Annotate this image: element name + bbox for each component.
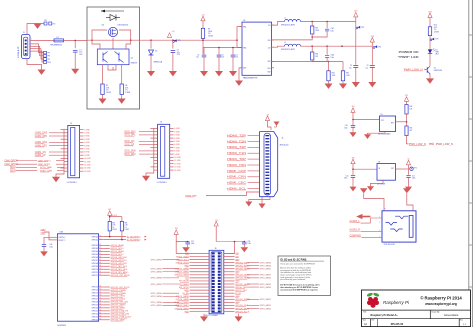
wire S2 left pin row 8 xyxy=(64,151,68,153)
svg-text:GPIO17: GPIO17 xyxy=(92,299,99,301)
svg-text:C2: C2 xyxy=(197,54,199,56)
wire LX1 to L1 xyxy=(272,22,285,26)
svg-text:GPIO08: GPIO08 xyxy=(92,263,99,265)
capacitor C5 10n xyxy=(217,54,222,56)
svg-text:50: 50 xyxy=(99,268,101,270)
inductor L1 DFE252012C-4R7M xyxy=(285,20,289,22)
resistor R6 47K xyxy=(120,84,123,95)
ground symbol below C10 xyxy=(350,187,357,192)
wire S2 right pin row 4 with pin number xyxy=(80,138,84,140)
svg-text:1 GND: 1 GND xyxy=(174,128,180,130)
svg-text:41: 41 xyxy=(99,238,101,240)
svg-text:7 GND: 7 GND xyxy=(174,147,180,149)
svg-text:TP2: TP2 xyxy=(52,24,55,26)
frame zone tick y=161 xyxy=(469,160,473,162)
ideal-diode annotation diode symbol xyxy=(110,15,116,21)
svg-text:RPI-APLUS: RPI-APLUS xyxy=(391,323,404,326)
svg-text:C6: C6 xyxy=(367,65,369,67)
wire S2 left pin row 3 xyxy=(64,135,68,137)
U1 pin GPIO row GPIO1_SCL0 xyxy=(99,247,104,249)
svg-text:8 GND: 8 GND xyxy=(174,151,180,153)
wire J8 right pin row 13 net GPIO7_CE1 xyxy=(224,289,235,291)
svg-text:Title: Title xyxy=(363,311,366,314)
svg-text:GPIO8_SPI_CE0: GPIO8_SPI_CE0 xyxy=(111,269,128,271)
LED D1 PWR red xyxy=(428,49,432,53)
op-amp U3 PAM2306AYPKE body xyxy=(242,22,272,75)
wire J8 left pin row 19 net GPIO26_GEN7 xyxy=(190,307,210,309)
svg-text:© Raspberry Pi 2014: © Raspberry Pi 2014 xyxy=(420,295,462,300)
wire J8 right pin row 11 net GPIO25_GEN6 xyxy=(224,283,235,285)
wire S1 right pin row 4 with pin number xyxy=(170,137,174,139)
svg-text:GPIO1_SCL0: GPIO1_SCL0 xyxy=(111,248,125,250)
svg-text:49: 49 xyxy=(99,265,101,267)
node junction zener D5 xyxy=(150,39,152,41)
wire S2 left pin row 10 xyxy=(61,157,68,159)
U1 pin GPIO row GPIO8_SPI_CE0 xyxy=(99,268,104,270)
svg-text:PWR_LOW_N: PWR_LOW_N xyxy=(436,143,453,146)
power arrow 3V3 for PWR LED xyxy=(428,13,432,18)
ground symbol below C40 xyxy=(40,251,48,256)
svg-text:DFE252012C-4R7M: DFE252012C-4R7M xyxy=(281,25,295,27)
svg-text:ID_SC: ID_SC xyxy=(235,293,242,295)
svg-text:GPIO_GEN5: GPIO_GEN5 xyxy=(260,269,271,271)
wire FB2 node xyxy=(272,60,313,62)
ideal-diode annotation arrow xyxy=(101,10,124,12)
wire S1 right pin row 13 with pin number xyxy=(170,166,174,168)
wire R6 to ground xyxy=(121,95,123,99)
frame zone tick y=245 xyxy=(469,244,473,246)
svg-text:GPIO26_GEN7: GPIO26_GEN7 xyxy=(174,308,189,310)
svg-text:GPIO_GEN1: GPIO_GEN1 xyxy=(260,305,271,307)
svg-text:TP10: TP10 xyxy=(47,62,51,64)
title block outer border xyxy=(362,290,471,327)
power arrow 3V3 for U5 xyxy=(351,108,355,113)
transistor Q1 element B symbol xyxy=(118,53,120,62)
U1 pin GPIO row GPIO13_PWM1 xyxy=(99,292,104,294)
resistor R31 4K7 xyxy=(405,126,408,136)
svg-text:VIN2: VIN2 xyxy=(243,48,247,50)
svg-text:GPIO_GEN5: GPIO_GEN5 xyxy=(151,269,162,271)
wire R24 to ID_SC row xyxy=(121,231,123,240)
svg-text:Q2: Q2 xyxy=(434,68,436,70)
svg-text:XOSCP_2: XOSCP_2 xyxy=(58,240,65,242)
title block row divider 1 xyxy=(362,309,471,311)
wire C11 to ground xyxy=(408,178,410,187)
svg-text:1.8K: 1.8K xyxy=(112,225,115,227)
svg-text:GPIO12_PWM0: GPIO12_PWM0 xyxy=(111,290,127,292)
wire and net label GPIO19_PCM_FS xyxy=(104,310,110,312)
U1 pin GPIO row GPIO17_GEN0 xyxy=(99,304,104,306)
capacitor C4 10n xyxy=(231,54,236,56)
svg-text:FB2: FB2 xyxy=(268,61,271,63)
svg-text:R64: R64 xyxy=(332,73,335,75)
wire and net label GPIO13_PWM1 xyxy=(104,292,110,294)
svg-text:C147: C147 xyxy=(331,28,335,30)
svg-text:SPI_MISO: SPI_MISO xyxy=(179,284,189,286)
svg-text:GPIO10_SPI_MOSI: GPIO10_SPI_MOSI xyxy=(111,275,130,277)
wire C7 to ground xyxy=(172,52,174,71)
svg-text:GPIO_GEN6: GPIO_GEN6 xyxy=(151,272,162,274)
svg-text:GPIO_GEN2: GPIO_GEN2 xyxy=(260,284,271,286)
svg-text:C5: C5 xyxy=(222,54,224,56)
wire and net label GPIO21_PCM_DOUT xyxy=(104,316,110,318)
svg-text:1-1734248-5: 1-1734248-5 xyxy=(157,182,167,184)
svg-text:54: 54 xyxy=(99,289,101,291)
wire Q1 base cross-link xyxy=(108,65,116,70)
svg-text:ZX62R-B-5P: ZX62R-B-5P xyxy=(18,46,20,58)
svg-text:12 GND: 12 GND xyxy=(174,163,181,165)
wire J7 top pin stub xyxy=(383,206,385,211)
U1 pin GPIO row GPIO9_SPI_MISO xyxy=(99,271,104,273)
wire J8 left pin row 13 net GND xyxy=(190,289,210,291)
svg-text:SCL0: SCL0 xyxy=(10,167,16,169)
svg-text:3V3: 3V3 xyxy=(352,158,355,160)
test pad TP7 (USB D-) xyxy=(44,51,47,54)
svg-text:3V3: 3V3 xyxy=(405,95,408,97)
wire HDMI_T2P to J6 xyxy=(248,135,260,137)
svg-text:RN4907: RN4907 xyxy=(131,63,138,65)
svg-text:1/16W: 1/16W xyxy=(125,92,130,94)
wire LX2 to L2 xyxy=(272,46,285,47)
svg-text:PWR_LOW_N: PWR_LOW_N xyxy=(409,144,426,146)
ground symbol below C25 xyxy=(182,247,190,252)
svg-text:Rev: Rev xyxy=(460,320,463,322)
wire and net label GPIO17_GEN0 xyxy=(104,304,110,306)
wire S1 right pin row 1 with pin number xyxy=(170,128,174,130)
wire R23 to ID_SD row xyxy=(109,231,111,237)
power arrow +5V for J8 xyxy=(214,221,218,226)
wire C2 to ground xyxy=(203,57,205,71)
wire S1 right pin row 12 with pin number xyxy=(170,163,174,165)
wire J1 VBUS pin to fuse F1 xyxy=(30,39,54,41)
svg-text:GPIO9_SPI_MISO: GPIO9_SPI_MISO xyxy=(111,272,129,274)
wire VIN2 pin xyxy=(241,47,243,49)
wire C6 to ground xyxy=(371,67,373,82)
svg-text:pins efficiently, prior hardwa: pins efficiently, prior hardware. xyxy=(280,278,306,281)
wire down to capacitor C1 xyxy=(74,40,76,48)
wire S2 left pin row 13 xyxy=(61,167,68,169)
svg-text:DSI1_DN0: DSI1_DN0 xyxy=(125,151,137,153)
node junction C9 tap xyxy=(352,119,354,121)
ground symbol below J6 pin xyxy=(245,202,252,207)
net flag arrow audio out xyxy=(356,214,362,219)
connector S2 camera FFC body xyxy=(68,125,80,177)
wire J8 left pin row 5 net GND xyxy=(190,265,210,267)
wire and net label GPIO7_SPI_CE1 xyxy=(104,265,110,267)
svg-text:DMG2305UX: DMG2305UX xyxy=(118,25,129,27)
power arrow 5V at U6 output xyxy=(406,160,410,165)
svg-text:GPIO14_TXD0: GPIO14_TXD0 xyxy=(111,296,126,298)
ground symbol below Q2 xyxy=(426,78,434,83)
capacitor C148 feed-forward ch2 xyxy=(326,46,328,55)
svg-text:GPIO_GEN6: GPIO_GEN6 xyxy=(151,296,162,298)
wire +5V rail through protection box xyxy=(87,39,140,41)
svg-text:GPIO03: GPIO03 xyxy=(92,248,99,250)
wire S1 left pin row 3 xyxy=(154,134,158,136)
svg-text:GPIO_GEN0: GPIO_GEN0 xyxy=(260,278,271,280)
wire to PWR_LOW_N net label xyxy=(407,136,409,144)
svg-text:1/16W: 1/16W xyxy=(125,229,130,231)
U1 pin GPIO row GPIO4_GPCLK0 xyxy=(99,256,104,258)
ground symbol below U6 xyxy=(367,186,374,191)
wire Q2 emitter to ground xyxy=(429,74,431,79)
svg-text:GPIO06: GPIO06 xyxy=(92,257,99,259)
wire to zener D5 xyxy=(150,40,152,48)
wire C1 to ground xyxy=(74,52,76,69)
svg-text:GPIO22_GEN3: GPIO22_GEN3 xyxy=(174,275,189,277)
svg-text:3V3: 3V3 xyxy=(108,209,111,211)
svg-text:100n: 100n xyxy=(191,243,195,245)
svg-text:GPIO21: GPIO21 xyxy=(92,311,99,313)
svg-text:10u: 10u xyxy=(366,68,369,70)
ground symbol below C2 xyxy=(200,71,208,76)
node junction C1 tap xyxy=(74,40,76,42)
svg-text:GPIO11_SPI_SCLK: GPIO11_SPI_SCLK xyxy=(111,287,131,289)
wire J8 right pin row 9 net GPIO24_GEN5 xyxy=(224,277,235,279)
svg-text:C25: C25 xyxy=(191,241,194,243)
wire S2 right pin row 8 with pin number xyxy=(80,151,84,153)
svg-text:10n: 10n xyxy=(236,57,239,59)
wire S2 right pin row 6 with pin number xyxy=(80,145,84,147)
svg-text:GPIO4_GPCLK0: GPIO4_GPCLK0 xyxy=(111,257,128,259)
wire S2 right pin row 12 with pin number xyxy=(80,164,84,166)
svg-text:GPIO_GEN7: GPIO_GEN7 xyxy=(260,275,271,277)
svg-text:PULLUP: PULLUP xyxy=(111,215,117,217)
wire R64 to ground xyxy=(328,81,330,84)
wire CAM rows to S2 bus xyxy=(56,160,64,162)
svg-text:2 GND: 2 GND xyxy=(174,131,180,133)
page frame right inner line xyxy=(468,0,470,327)
wire J8 left pin row 2 net GPIO2_SDA1 xyxy=(190,255,210,257)
svg-text:GPIO15: GPIO15 xyxy=(92,293,99,295)
wire AUDIO_R to J7 xyxy=(361,231,383,233)
svg-text:L2: L2 xyxy=(284,42,286,44)
capacitor C11 output xyxy=(406,175,410,177)
wire and net label GPIO12_PWM0 xyxy=(104,289,110,291)
inductor L2 DFE252012C-4R7M xyxy=(285,44,289,46)
wire J8 left pin row 15 net GPIO5_GEN5 xyxy=(190,295,210,297)
wire J8 left pin row 12 net SPI_SCLK xyxy=(190,286,210,288)
svg-text:DSI1_DN1: DSI1_DN1 xyxy=(125,132,137,134)
test point TP4 on 1V8 xyxy=(373,47,375,49)
svg-text:LX1: LX1 xyxy=(268,25,271,27)
svg-text:U5: U5 xyxy=(381,114,383,116)
svg-text:U6: U6 xyxy=(378,161,380,163)
svg-text:3V3: 3V3 xyxy=(354,11,357,13)
svg-text:100n: 100n xyxy=(331,57,335,59)
wire HDMI_T0P to J6 xyxy=(248,158,260,160)
svg-text:XOSCN_1: XOSCN_1 xyxy=(58,237,65,239)
wire S2 right pin row 9 with pin number xyxy=(80,154,84,156)
resistor R5 47K xyxy=(101,84,104,95)
wire J8 bottom left pin to ground xyxy=(203,314,205,317)
wire S1 left pin row 8 xyxy=(154,150,158,152)
svg-text:ID_SD and ID_SC PINS:: ID_SD and ID_SC PINS: xyxy=(280,258,307,261)
wire AUDIO_L to J7 xyxy=(361,218,383,223)
svg-text:61: 61 xyxy=(99,310,101,312)
svg-text:GPIO26_GEN7: GPIO26_GEN7 xyxy=(111,320,127,322)
wire HDMI_SCL to J6 xyxy=(248,188,260,190)
svg-text:100n: 100n xyxy=(344,127,348,129)
svg-text:DSI1_CP: DSI1_CP xyxy=(125,144,135,146)
svg-text:TP6: TP6 xyxy=(435,39,438,41)
wire S2 right pin row 10 with pin number xyxy=(80,157,84,159)
wire J8 right pin row 20 net GPIO21_SCLK xyxy=(224,311,235,313)
svg-text:58: 58 xyxy=(99,301,101,303)
svg-text:C10: C10 xyxy=(346,175,349,177)
frame zone tick y=77 xyxy=(469,76,473,78)
svg-text:GPIO6_GPCLK2: GPIO6_GPCLK2 xyxy=(111,263,128,265)
U1 pin GPIO row GPIO3_SCL1 xyxy=(99,253,104,255)
svg-text:POWER OK: POWER OK xyxy=(399,50,420,54)
protection circuit boundary box xyxy=(87,7,140,109)
wire input caps bus xyxy=(202,48,204,55)
wire Q1 emitter A up to rail xyxy=(92,40,100,49)
svg-text:www.raspberrypi.org: www.raspberrypi.org xyxy=(424,302,457,306)
svg-text:GPIO24: GPIO24 xyxy=(92,319,99,321)
svg-text:ID_SC/GPIO0: ID_SC/GPIO0 xyxy=(127,239,142,241)
wire and net label GPIO20_PCM_DIN xyxy=(104,313,110,315)
svg-text:45: 45 xyxy=(99,253,101,255)
wire S2 left pin row 5 xyxy=(64,141,68,143)
U3 left pin stubs xyxy=(240,26,243,28)
wire S1 left pin row 14 xyxy=(154,169,158,171)
wire 3V3 rail decoupling branch xyxy=(355,22,357,65)
op-amp U1 BCM2835 body xyxy=(57,234,98,321)
wire J6 pin to ground lower xyxy=(249,197,270,202)
power arrow 3V3 for U6 xyxy=(351,159,355,164)
svg-text:10 GND: 10 GND xyxy=(174,157,181,159)
wire and net label GPIO6_GPCLK2 xyxy=(104,262,110,264)
wire C9 branch xyxy=(352,120,354,126)
svg-text:DSI1_DP1: DSI1_DP1 xyxy=(125,135,137,137)
svg-text:GPIO20: GPIO20 xyxy=(92,308,99,310)
wire S2 left pin row 14 xyxy=(64,170,68,172)
wire C26 to ground xyxy=(243,244,245,247)
svg-text:57: 57 xyxy=(99,298,101,300)
svg-text:IN: IN xyxy=(379,168,381,170)
svg-text:GPIO_GEN2: GPIO_GEN2 xyxy=(151,284,162,286)
resistor R62 feedback upper xyxy=(311,22,313,27)
svg-text:DSI1_DP0: DSI1_DP0 xyxy=(125,154,137,156)
svg-text:1/16W: 1/16W xyxy=(112,229,117,231)
svg-text:GND: GND xyxy=(235,259,240,261)
U1 pin GPIO row GPIO2_SDA1 xyxy=(99,250,104,252)
wire S1 right pin row 10 with pin number xyxy=(170,156,174,158)
connector S1 display FFC body xyxy=(158,124,170,178)
svg-text:R23: R23 xyxy=(112,222,115,224)
svg-text:GPIO21_SCLK: GPIO21_SCLK xyxy=(235,311,250,313)
page frame right outer line xyxy=(471,0,473,327)
resistor R64 feedback lower ch1 xyxy=(328,62,330,71)
wire J8 right pin row 1 net 5V0 xyxy=(224,252,235,254)
wire 3V3 to R10 xyxy=(429,18,431,27)
resistor R30 10K pull-up xyxy=(405,105,408,115)
svg-text:GPIO10: GPIO10 xyxy=(92,269,99,271)
ground symbol below U3 GND pin xyxy=(235,81,243,86)
test point TP5 xyxy=(173,41,175,43)
connector J7 jack internal contacts xyxy=(395,216,408,219)
svg-text:1/16W: 1/16W xyxy=(434,31,439,33)
wire J7 detect to ground xyxy=(407,193,413,211)
svg-text:Drawn By: Drawn By xyxy=(432,312,440,314)
power arrow 3V3 for J8 xyxy=(174,230,178,235)
power arrow +5V above R4 xyxy=(201,16,205,21)
test pad TP1 shield xyxy=(44,22,47,25)
svg-text:1 GND: 1 GND xyxy=(84,129,90,131)
wire S1 left pin row 6 xyxy=(154,144,158,146)
svg-text:GPIO_GEN2: GPIO_GEN2 xyxy=(260,308,271,310)
wire J8 right pin row 10 net GND xyxy=(224,280,235,282)
svg-text:9 GND: 9 GND xyxy=(174,154,180,156)
U1 pin GPIO row ID_SD xyxy=(99,236,104,238)
svg-text:GPIO21_PCM_DOUT: GPIO21_PCM_DOUT xyxy=(111,317,133,319)
op-amp U5 APX803-46SAG body xyxy=(380,116,396,131)
svg-text:52: 52 xyxy=(99,274,101,276)
svg-text:6 GND: 6 GND xyxy=(174,144,180,146)
svg-text:53: 53 xyxy=(99,286,101,288)
wire C10 branch xyxy=(352,170,354,175)
svg-text:GPIO5_GPCLK1: GPIO5_GPCLK1 xyxy=(111,260,128,262)
svg-text:GND: GND xyxy=(235,272,240,274)
wire and net label GPIO9_SPI_MISO xyxy=(104,271,110,273)
wire S2 left pin row 9 xyxy=(64,154,68,156)
svg-text:4 GND: 4 GND xyxy=(174,138,180,140)
wire U5 GND pin to ground xyxy=(368,131,386,134)
wire and net label GPIO3_SCL1 xyxy=(104,253,110,255)
wire J8 right pin row 7 net GND xyxy=(224,271,235,273)
svg-text:1: 1 xyxy=(31,39,32,41)
node junction left of Q3 xyxy=(91,39,93,41)
wire S2 left pin row 12 xyxy=(64,164,68,166)
power arrow 1V8 output xyxy=(370,38,374,43)
wire HDMI_T1N to J6 xyxy=(248,152,260,154)
svg-text:VIN1: VIN1 xyxy=(243,27,247,29)
resistor R24 1K8 pull-up ID_SC xyxy=(120,221,123,231)
wire J8 left pin row 1 net 3V3 xyxy=(190,252,210,254)
wire Q1 collector A to R5 xyxy=(102,65,104,84)
wire R5 to ground xyxy=(102,95,104,99)
wire HDMI_T0N to J6 xyxy=(248,164,260,166)
svg-text:TP1: TP1 xyxy=(44,20,47,22)
wire SDA0 into S2 xyxy=(16,170,37,172)
ground symbol below R65 xyxy=(339,84,347,89)
svg-text:13 GND: 13 GND xyxy=(84,168,91,170)
svg-text:than attaching an I2C ID EEPRO: than attaching an I2C ID EEPROM. Leave xyxy=(280,286,318,289)
U1 pin GPIO row GPIO15_RXD0 xyxy=(99,298,104,300)
wire S2 ground bus to ground symbol xyxy=(56,171,64,176)
wire 3V3 to J8 pin1 area xyxy=(176,234,188,241)
wire and net label GPIO1_SCL0 xyxy=(104,247,110,249)
wire C5 to ground xyxy=(218,57,220,71)
svg-text:GND: GND xyxy=(235,281,240,283)
svg-text:13 GND: 13 GND xyxy=(174,167,181,169)
wire and net label GPIO2_SDA1 xyxy=(104,250,110,252)
svg-text:R24: R24 xyxy=(125,222,128,224)
svg-text:47: 47 xyxy=(99,259,101,261)
Raspberry Pi logo berry xyxy=(366,292,373,297)
svg-text:GPIO8_CE0: GPIO8_CE0 xyxy=(235,287,247,289)
wire J8 right pin row 2 net 5V0 xyxy=(224,255,235,257)
wire and net label GPIO8_SPI_CE0 xyxy=(104,268,110,270)
resistor R63 feedback upper ch2 xyxy=(311,46,313,52)
svg-text:6 GND: 6 GND xyxy=(84,145,90,147)
svg-text:GPIO_GEN7: GPIO_GEN7 xyxy=(260,299,271,301)
ground symbol below J1 xyxy=(38,70,46,75)
ground symbol J7 sleeve upper xyxy=(360,188,368,193)
svg-text:SPI_SCLK: SPI_SCLK xyxy=(179,287,190,289)
wire +5V arrow to R4 xyxy=(202,21,204,29)
